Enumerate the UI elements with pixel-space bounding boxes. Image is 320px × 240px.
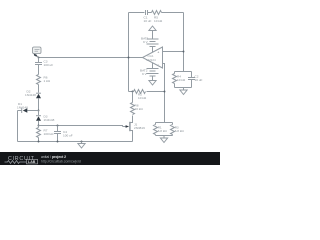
- ground below lower pair: [160, 136, 167, 143]
- logo zigzag: [5, 161, 27, 164]
- node input junction: [38, 57, 40, 59]
- svg-text:1N4148: 1N4148: [17, 106, 28, 110]
- wire bottom rail: [18, 141, 133, 143]
- svg-text:1 kΩ: 1 kΩ: [44, 79, 51, 83]
- lower pair bottom wire: [156, 135, 173, 137]
- svg-text:1N4148: 1N4148: [44, 118, 55, 122]
- svg-text:2N3819: 2N3819: [134, 126, 145, 130]
- capacitor C1: [144, 10, 152, 23]
- resistor R4: [173, 72, 186, 88]
- svg-text:10 kΩ: 10 kΩ: [135, 107, 144, 111]
- svg-text:http://circuitlab.com/cwjxrd: http://circuitlab.com/cwjxrd: [41, 160, 81, 164]
- svg-text:10 kΩ: 10 kΩ: [138, 96, 147, 100]
- svg-text:+: +: [157, 50, 159, 54]
- svg-text:10 kΩ: 10 kΩ: [177, 78, 186, 82]
- node ground tee: [81, 141, 83, 143]
- resistor R5: [152, 11, 163, 24]
- resistor R1 6.8k: [154, 123, 168, 136]
- node drain resistor tee: [132, 91, 134, 93]
- wire to top-right corner: [162, 12, 184, 14]
- svg-text:100 uF: 100 uF: [44, 63, 54, 67]
- battery BAT2 9V: [140, 69, 159, 77]
- svg-text:LAB: LAB: [28, 160, 36, 164]
- wire op-amp - input down to R2 node: [163, 64, 165, 123]
- diode D3: [36, 111, 55, 126]
- wire main horizontal (output to left chain) y=57: [39, 57, 143, 59]
- svg-text:10 uF: 10 uF: [195, 78, 203, 82]
- input flag: [33, 47, 42, 57]
- svg-text:10 kΩ: 10 kΩ: [154, 19, 163, 23]
- supply arrow above BAT1: [149, 26, 156, 39]
- svg-text:1N4148: 1N4148: [25, 93, 36, 97]
- wire left feedback rail: [128, 13, 130, 92]
- wire D1 left leg down: [17, 111, 19, 142]
- diode D2: [25, 90, 41, 111]
- resistor R3 6.8k: [171, 123, 185, 136]
- capacitor C2: [188, 72, 203, 88]
- resistor R2: [129, 90, 165, 101]
- svg-text:100 uF: 100 uF: [63, 134, 73, 138]
- diode D1 (horizontal, pointing left): [17, 102, 39, 113]
- wire gate row y=125.5: [39, 126, 123, 127]
- wire op-amp + input: [163, 51, 184, 53]
- capacitor C3: [35, 58, 53, 75]
- node C4 bottom: [57, 141, 59, 143]
- battery BAT1 9V: [141, 37, 159, 47]
- wire right vertical rail: [183, 13, 185, 72]
- svg-text:9 V: 9 V: [142, 72, 148, 76]
- wire V- pin stub: [152, 63, 154, 69]
- svg-text:6.8 kΩ: 6.8 kΩ: [158, 129, 168, 133]
- svg-text:6.8 kΩ: 6.8 kΩ: [175, 129, 185, 133]
- wire top feedback loop y=12: [129, 12, 145, 14]
- upper RC loop bottom wire: [175, 87, 192, 89]
- ground below bottom rail: [78, 142, 85, 149]
- capacitor C4: [54, 126, 73, 142]
- lower RC pair loop: [156, 122, 173, 124]
- ground below upper RC: [180, 88, 187, 95]
- resistor R6 1k: [37, 75, 51, 93]
- resistor R8 drain 10k: [131, 92, 144, 119]
- node C4 top tee: [57, 125, 59, 127]
- node R2 right tee: [164, 91, 166, 93]
- node R7 bottom: [38, 141, 40, 143]
- ground below BAT2: [149, 76, 156, 85]
- svg-text:LM324: LM324: [147, 58, 157, 62]
- transistor Q1 2N3819 JFET: [123, 119, 146, 142]
- node D1 tee: [38, 110, 40, 112]
- node output junction: [128, 57, 130, 59]
- footer bar: [0, 152, 220, 165]
- resistor R7 100k: [37, 126, 55, 142]
- upper RC load loop top wire: [175, 71, 192, 73]
- op-amp U1 OA1 LM324: [143, 47, 163, 68]
- wire V+ pin stub: [152, 47, 154, 53]
- node + input tee: [183, 51, 185, 53]
- node gate wire tee: [38, 125, 40, 127]
- svg-text:100 kΩ: 100 kΩ: [44, 132, 55, 136]
- svg-text:10 uF: 10 uF: [144, 19, 152, 23]
- logo LAB box: [27, 159, 38, 164]
- svg-text:anital / project 2: anital / project 2: [41, 155, 66, 159]
